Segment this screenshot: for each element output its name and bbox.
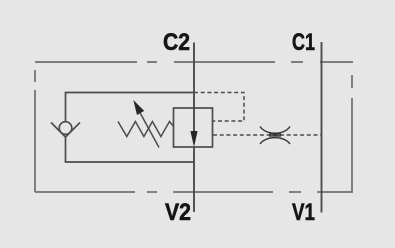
svg-text:C1: C1: [292, 29, 315, 56]
line C2 (port C2 to valve body): [193, 43, 195, 109]
orifice center restriction: [269, 133, 281, 137]
svg-text:C2: C2: [163, 29, 190, 56]
orifice upper arc: [260, 127, 290, 134]
pilot line from C2 (dashed loop): [194, 93, 244, 122]
envelope bottom edge: [35, 191, 353, 193]
pilot line to C1 (dashed, through orifice): [213, 134, 322, 136]
spring: [118, 122, 174, 137]
flow arrow (downward): [190, 131, 197, 147]
valve body square: [174, 108, 213, 147]
check valve seat: [51, 123, 80, 138]
svg-text:V2: V2: [165, 199, 191, 226]
line C1-V1: [321, 42, 323, 213]
adjustment arrow head: [133, 100, 144, 115]
check valve ball: [59, 122, 72, 135]
envelope top edge: [35, 61, 353, 63]
orifice lower arc: [260, 138, 290, 144]
envelope right edge: [351, 62, 353, 192]
wire check valve upper branch: [66, 93, 195, 122]
adjustment arrow shaft: [138, 109, 159, 148]
wire check valve lower branch: [66, 137, 195, 163]
line V2 (valve body to port V2): [193, 147, 195, 212]
envelope left edge: [34, 62, 36, 192]
svg-text:V1: V1: [292, 199, 315, 226]
flow path line inside valve: [193, 108, 195, 134]
